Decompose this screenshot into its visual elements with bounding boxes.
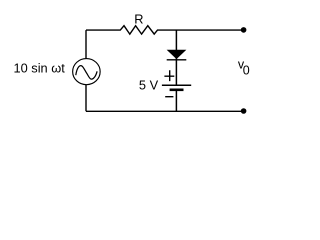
svg-text:0: 0 bbox=[243, 64, 250, 78]
svg-text:5 V: 5 V bbox=[139, 78, 159, 93]
svg-text:R: R bbox=[134, 11, 143, 26]
svg-text:10 sin ωt: 10 sin ωt bbox=[14, 61, 66, 76]
